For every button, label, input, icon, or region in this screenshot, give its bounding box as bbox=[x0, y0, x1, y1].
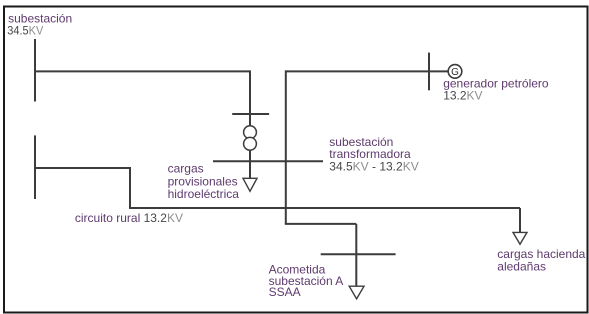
bus tick on acometida drop bbox=[321, 253, 396, 255]
svg-text:aledañas: aledañas bbox=[497, 259, 546, 273]
load arrow: acometida subestación A SSAA bbox=[349, 286, 364, 299]
load arrow: cargas hacienda aledañas bbox=[513, 232, 527, 244]
load arrow: cargas provisionales hidroeléctrica bbox=[243, 178, 257, 191]
wire: drop to cargas hacienda arrow bbox=[519, 208, 521, 233]
svg-text:34.5KV: 34.5KV bbox=[7, 23, 43, 37]
transformer T1 primary winding bbox=[244, 126, 257, 139]
bus tick before generator bbox=[428, 53, 430, 91]
wire: acometida vertical drop bbox=[355, 224, 357, 287]
wire: second bus vertical bbox=[285, 70, 287, 224]
svg-text:hidroeléctrica: hidroeléctrica bbox=[168, 187, 240, 201]
wire: transformer secondary down to load arrow bbox=[249, 150, 251, 179]
wire: top horizontal feeder to generator bbox=[286, 70, 448, 72]
wire: secondary horizontal bus at transformer bbox=[213, 160, 323, 162]
wire: rural feeder vertical jog bbox=[129, 167, 131, 208]
svg-text:circuito rural 13.2KV: circuito rural 13.2KV bbox=[75, 211, 183, 225]
wire: left bus upper segment bbox=[34, 39, 36, 102]
wire: acometida branch horizontal bbox=[285, 223, 357, 225]
bus tick above transformer bbox=[232, 113, 269, 115]
transformer T1 secondary winding bbox=[244, 137, 257, 150]
svg-text:13.2KV: 13.2KV bbox=[443, 88, 482, 102]
svg-text:34.5KV - 13.2KV: 34.5KV - 13.2KV bbox=[329, 159, 418, 173]
wire: circuito rural horizontal line bbox=[129, 207, 520, 209]
wire: top horizontal feeder from left bus to transformer bbox=[34, 70, 250, 72]
svg-text:SSAA: SSAA bbox=[269, 285, 301, 299]
wire: vertical drop to transformer primary bbox=[249, 70, 251, 127]
wire: rural feeder horizontal from left bus bbox=[34, 167, 130, 169]
wire: left bus lower segment bbox=[34, 135, 36, 199]
generator G1 circle bbox=[448, 65, 462, 79]
